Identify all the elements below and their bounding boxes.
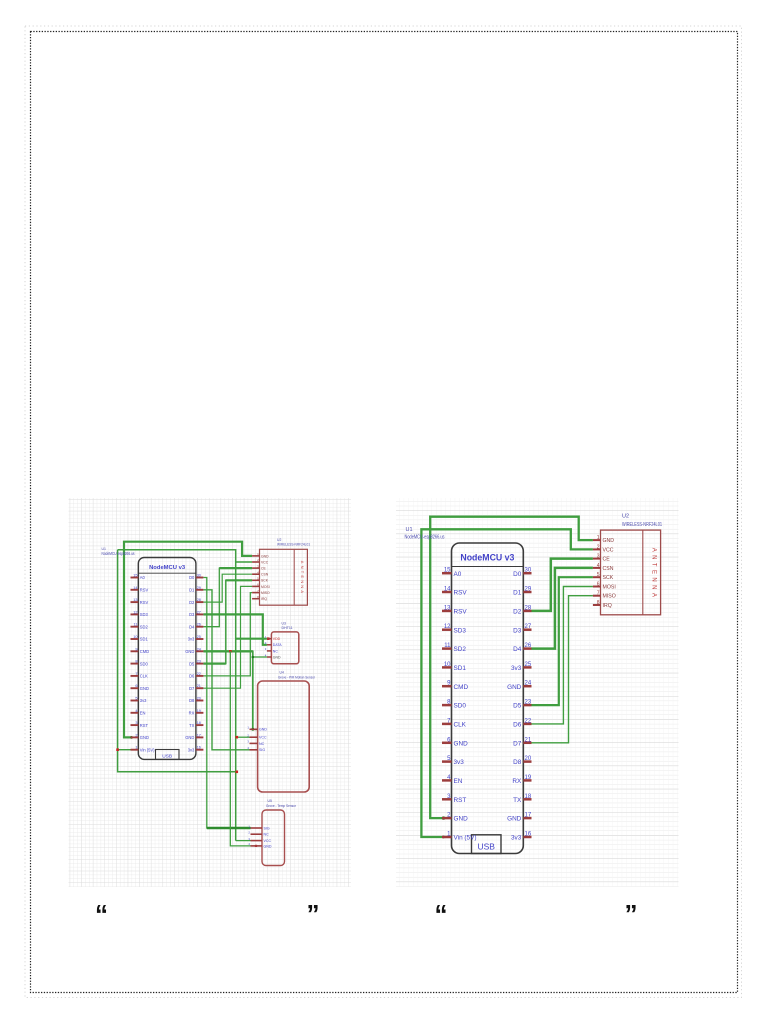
svg-text:EN: EN [454, 778, 463, 785]
svg-text:USB: USB [477, 842, 495, 852]
svg-text:WIRELESS-NRF24L01: WIRELESS-NRF24L01 [622, 522, 662, 528]
svg-text:11: 11 [444, 643, 451, 649]
svg-text:CSN: CSN [261, 573, 269, 577]
svg-text:Grove - PIR Motion Sensor: Grove - PIR Motion Sensor [278, 675, 316, 680]
svg-text:10: 10 [444, 662, 451, 668]
svg-text:SD1: SD1 [140, 637, 149, 642]
svg-text:EN: EN [140, 711, 146, 716]
svg-text:23: 23 [525, 700, 532, 706]
svg-text:30: 30 [525, 568, 532, 574]
svg-text:GND: GND [454, 740, 469, 747]
svg-text:CLK: CLK [140, 674, 148, 679]
svg-text:5: 5 [597, 572, 600, 578]
svg-text:GND: GND [140, 686, 149, 691]
svg-text:ANTENNA: ANTENNA [300, 561, 305, 596]
svg-text:SIG: SIG [259, 748, 265, 752]
svg-text:1: 1 [597, 535, 600, 541]
svg-text:CMD: CMD [454, 684, 469, 691]
svg-text:9: 9 [135, 647, 137, 651]
svg-text:RSV: RSV [140, 600, 149, 605]
svg-text:3: 3 [597, 554, 600, 560]
svg-text:6: 6 [135, 684, 137, 688]
svg-text:3v3: 3v3 [188, 637, 195, 642]
svg-text:”: ” [625, 899, 638, 929]
svg-text:D5: D5 [513, 703, 522, 710]
svg-text:D2: D2 [513, 609, 522, 616]
svg-text:GND: GND [185, 649, 194, 654]
svg-text:CE: CE [603, 557, 611, 563]
svg-text:GND: GND [454, 816, 469, 823]
svg-text:SD0: SD0 [454, 703, 467, 710]
svg-text:CMD: CMD [140, 649, 149, 654]
svg-text:GND: GND [140, 735, 149, 740]
svg-text:U2: U2 [277, 538, 281, 542]
svg-text:19: 19 [197, 709, 201, 713]
svg-text:SD3: SD3 [454, 627, 467, 634]
svg-text:14: 14 [444, 587, 451, 593]
svg-text:RSV: RSV [140, 588, 149, 593]
svg-text:2: 2 [135, 733, 137, 737]
svg-text:16: 16 [197, 746, 201, 750]
svg-text:D6: D6 [513, 722, 522, 729]
svg-text:13: 13 [444, 605, 451, 611]
svg-text:21: 21 [197, 684, 201, 688]
svg-text:NC: NC [259, 742, 265, 746]
svg-text:D3: D3 [189, 612, 195, 617]
svg-text:D0: D0 [513, 571, 522, 578]
svg-text:TX: TX [513, 797, 522, 804]
svg-text:”: ” [307, 899, 320, 929]
svg-text:Vin (5V): Vin (5V) [454, 835, 477, 842]
svg-text:3v3: 3v3 [140, 698, 147, 703]
svg-text:A0: A0 [140, 575, 146, 580]
svg-text:CSN: CSN [603, 566, 614, 572]
svg-text:3v3: 3v3 [188, 747, 195, 752]
svg-text:4: 4 [597, 563, 600, 569]
svg-text:19: 19 [525, 775, 532, 781]
svg-text:U1: U1 [406, 527, 413, 533]
svg-text:D4: D4 [513, 646, 522, 653]
svg-text:TX: TX [189, 723, 195, 728]
svg-text:11: 11 [134, 623, 138, 627]
svg-text:IRQ: IRQ [261, 597, 267, 601]
svg-text:3v3: 3v3 [511, 665, 522, 672]
svg-text:VCC: VCC [261, 560, 269, 564]
svg-text:28: 28 [525, 605, 532, 611]
svg-text:SCK: SCK [603, 575, 614, 581]
svg-text:RST: RST [454, 797, 467, 804]
svg-text:10: 10 [133, 635, 137, 639]
svg-text:NC: NC [264, 833, 270, 837]
svg-text:GND: GND [259, 728, 267, 732]
svg-text:SIG: SIG [264, 826, 270, 830]
svg-text:GND: GND [273, 655, 281, 659]
svg-text:GND: GND [264, 844, 272, 848]
svg-text:D6: D6 [189, 674, 195, 679]
svg-text:GND: GND [603, 538, 615, 544]
svg-text:13: 13 [133, 598, 137, 602]
svg-text:SD1: SD1 [454, 665, 467, 672]
svg-text:“: “ [435, 899, 448, 929]
svg-text:27: 27 [197, 610, 201, 614]
svg-text:VDD: VDD [273, 637, 281, 641]
svg-text:U5: U5 [268, 799, 272, 803]
svg-text:30: 30 [197, 574, 201, 578]
svg-text:8: 8 [597, 600, 600, 606]
svg-text:GND: GND [261, 554, 269, 558]
svg-text:D7: D7 [189, 686, 195, 691]
svg-text:D8: D8 [189, 698, 195, 703]
svg-text:28: 28 [197, 598, 201, 602]
svg-text:1: 1 [135, 746, 137, 750]
svg-text:24: 24 [197, 647, 201, 651]
svg-text:MOSI: MOSI [603, 585, 616, 591]
svg-text:8: 8 [135, 660, 137, 664]
svg-text:D3: D3 [513, 627, 522, 634]
svg-text:MOSI: MOSI [261, 585, 270, 589]
svg-text:4: 4 [135, 709, 137, 713]
svg-text:DATA: DATA [273, 643, 282, 647]
svg-text:D5: D5 [189, 661, 195, 666]
svg-text:24: 24 [525, 681, 532, 687]
svg-text:21: 21 [525, 737, 532, 743]
svg-text:29: 29 [197, 586, 201, 590]
svg-text:SD3: SD3 [140, 612, 149, 617]
svg-text:GND: GND [185, 735, 194, 740]
svg-text:26: 26 [197, 623, 201, 627]
svg-text:7: 7 [135, 672, 137, 676]
svg-text:27: 27 [525, 624, 532, 630]
svg-text:DHT11: DHT11 [282, 626, 293, 630]
svg-text:20: 20 [197, 697, 201, 701]
svg-text:NodeMCU-esp8266.us: NodeMCU-esp8266.us [405, 535, 445, 541]
svg-text:22: 22 [525, 718, 532, 724]
svg-text:26: 26 [525, 643, 532, 649]
svg-text:3v3: 3v3 [511, 835, 522, 842]
svg-text:RST: RST [140, 723, 149, 728]
svg-text:A0: A0 [454, 571, 462, 578]
svg-text:RSV: RSV [454, 609, 468, 616]
svg-text:22: 22 [197, 672, 201, 676]
svg-text:16: 16 [525, 832, 532, 838]
svg-text:SD2: SD2 [454, 646, 467, 653]
svg-text:3v3: 3v3 [454, 759, 465, 766]
svg-text:SCK: SCK [261, 579, 269, 583]
svg-text:D1: D1 [513, 590, 522, 597]
svg-text:CLK: CLK [454, 722, 467, 729]
svg-text:2: 2 [597, 544, 600, 550]
svg-text:12: 12 [444, 624, 451, 630]
svg-text:18: 18 [525, 794, 532, 800]
svg-text:VCC: VCC [259, 736, 267, 740]
svg-text:Vin (5V): Vin (5V) [140, 747, 155, 752]
svg-text:14: 14 [133, 586, 137, 590]
svg-text:D1: D1 [189, 588, 195, 593]
svg-text:5: 5 [135, 697, 137, 701]
svg-text:25: 25 [525, 662, 532, 668]
svg-text:U2: U2 [622, 514, 629, 520]
svg-text:D4: D4 [189, 624, 195, 629]
svg-text:GND: GND [507, 816, 522, 823]
svg-text:CE: CE [261, 567, 266, 571]
svg-text:RSV: RSV [454, 590, 468, 597]
svg-text:17: 17 [197, 733, 201, 737]
svg-text:7: 7 [597, 591, 600, 597]
svg-text:D8: D8 [513, 759, 522, 766]
svg-text:15: 15 [444, 568, 451, 574]
svg-text:D0: D0 [189, 575, 195, 580]
svg-text:D2: D2 [189, 600, 195, 605]
svg-text:NC: NC [273, 649, 279, 653]
svg-text:“: “ [95, 899, 108, 929]
svg-text:NodeMCU v3: NodeMCU v3 [149, 565, 185, 571]
svg-text:3: 3 [135, 721, 137, 725]
svg-text:GND: GND [507, 684, 522, 691]
svg-text:VCC: VCC [264, 839, 272, 843]
svg-text:RX: RX [512, 778, 522, 785]
svg-text:15: 15 [133, 574, 137, 578]
svg-text:RX: RX [189, 711, 195, 716]
svg-text:MISO: MISO [261, 591, 270, 595]
svg-text:NodeMCU v3: NodeMCU v3 [460, 553, 514, 563]
svg-text:VCC: VCC [603, 547, 614, 553]
svg-text:25: 25 [197, 635, 201, 639]
svg-text:NodeMCU-esp8266.us: NodeMCU-esp8266.us [102, 551, 135, 556]
svg-text:20: 20 [525, 756, 532, 762]
svg-text:29: 29 [525, 587, 532, 593]
svg-text:USB: USB [162, 754, 172, 760]
svg-text:WIRELESS-NRF24L01: WIRELESS-NRF24L01 [277, 543, 310, 547]
svg-text:Grove - Temp Sensor: Grove - Temp Sensor [266, 804, 297, 808]
svg-text:18: 18 [197, 721, 201, 725]
svg-text:23: 23 [197, 660, 201, 664]
svg-text:17: 17 [525, 813, 532, 819]
svg-text:6: 6 [597, 582, 600, 588]
svg-text:IRQ: IRQ [603, 603, 612, 609]
svg-text:ANTENNA: ANTENNA [651, 548, 657, 600]
svg-text:12: 12 [133, 610, 137, 614]
svg-text:MISO: MISO [603, 594, 616, 600]
svg-text:D7: D7 [513, 740, 522, 747]
svg-text:SD2: SD2 [140, 624, 149, 629]
svg-text:SD0: SD0 [140, 661, 149, 666]
